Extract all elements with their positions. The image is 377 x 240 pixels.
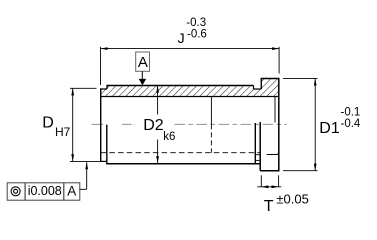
T dimension extension right — [278, 175, 280, 187]
D dimension line — [72, 88, 74, 161]
svg-text:k6: k6 — [163, 131, 175, 143]
flange bore chamfer far-side edge — [274, 97, 276, 123]
flange face rise — [260, 79, 262, 90]
T arrow left — [261, 185, 268, 188]
J arrow right — [272, 47, 279, 50]
land bottom silhouette — [100, 160, 107, 162]
groove silhouette vertical — [254, 123, 256, 164]
centerline (axis) right of D2 label — [175, 123, 287, 125]
T dimension extension left — [260, 175, 262, 187]
bore hidden line (dashed) — [101, 152, 261, 154]
bore step hidden (dashed below axis) — [210, 124, 212, 152]
D arrow up — [71, 88, 74, 95]
D1 arrow down — [314, 164, 317, 171]
feature control frame outer box — [7, 183, 80, 200]
J dimension line — [101, 48, 280, 50]
D2 dimension line upper segment — [157, 86, 159, 115]
groove bottom — [254, 88, 262, 90]
groove silhouette tick 2 — [255, 159, 260, 161]
FCF leader arrow — [85, 162, 88, 169]
D1 arrow up — [314, 78, 317, 85]
svg-text:-0.6: -0.6 — [187, 29, 207, 41]
datum stem — [141, 71, 143, 79]
groove step down — [253, 86, 255, 90]
svg-text:A: A — [67, 183, 76, 198]
body bottom silhouette — [107, 163, 260, 165]
D dimension extension top — [70, 87, 97, 89]
svg-text:±0.05: ±0.05 — [276, 192, 308, 207]
J dimension extension line right — [278, 47, 280, 74]
J dimension extension line left — [100, 47, 102, 85]
svg-text:A: A — [138, 54, 148, 71]
T dimension line — [257, 186, 281, 188]
groove silhouette tick 1 — [255, 154, 260, 156]
section hatch fill (sleeve wall + flange) — [101, 79, 279, 97]
FCF leader vertical — [86, 162, 88, 189]
concentricity symbol inner circle — [14, 189, 18, 193]
svg-text:-0.4: -0.4 — [341, 118, 361, 130]
FCF divider 2 — [63, 183, 65, 200]
svg-text:D1: D1 — [319, 120, 340, 137]
D2 dimension line lower segment — [157, 140, 159, 164]
datum A box — [136, 52, 150, 71]
flange top — [261, 78, 279, 80]
svg-text:-0.1: -0.1 — [341, 107, 361, 119]
D2 arrow down — [156, 156, 159, 163]
left step silhouette lower — [106, 125, 108, 165]
bore line (hatch band bottom) — [101, 96, 279, 98]
D dimension extension bottom — [70, 160, 100, 162]
J arrow left — [101, 47, 108, 50]
D1 dimension extension bottom — [283, 170, 318, 172]
svg-text:D2: D2 — [143, 117, 164, 134]
centerline (axis) left of D2 label — [92, 123, 135, 125]
FCF divider 1 — [24, 183, 26, 200]
datum top surface — [106, 85, 253, 87]
svg-text:T: T — [264, 198, 274, 215]
concentricity symbol outer circle — [11, 187, 20, 196]
datum triangle — [139, 79, 147, 85]
FCF leader horizontal — [80, 188, 87, 190]
bore step far-side edge (solid above axis) — [210, 97, 212, 125]
svg-text:-0.3: -0.3 — [186, 17, 206, 29]
D1 dimension line — [314, 78, 316, 170]
D arrow down — [71, 154, 74, 161]
svg-text:J: J — [178, 30, 185, 46]
svg-text:H7: H7 — [55, 125, 71, 139]
flange bottom — [260, 170, 279, 172]
svg-text:i0.008: i0.008 — [28, 184, 62, 198]
T arrow right — [272, 185, 279, 188]
step up at left — [106, 86, 108, 90]
D2 arrow up — [156, 86, 159, 93]
flange face lower — [259, 122, 261, 171]
svg-text:D: D — [42, 115, 54, 132]
flange right edge — [278, 78, 280, 172]
D1 dimension extension top — [283, 77, 318, 79]
flange bore chamfer lower edge — [267, 153, 279, 155]
part outline: left face — [100, 88, 102, 161]
land top surface — [100, 88, 107, 90]
